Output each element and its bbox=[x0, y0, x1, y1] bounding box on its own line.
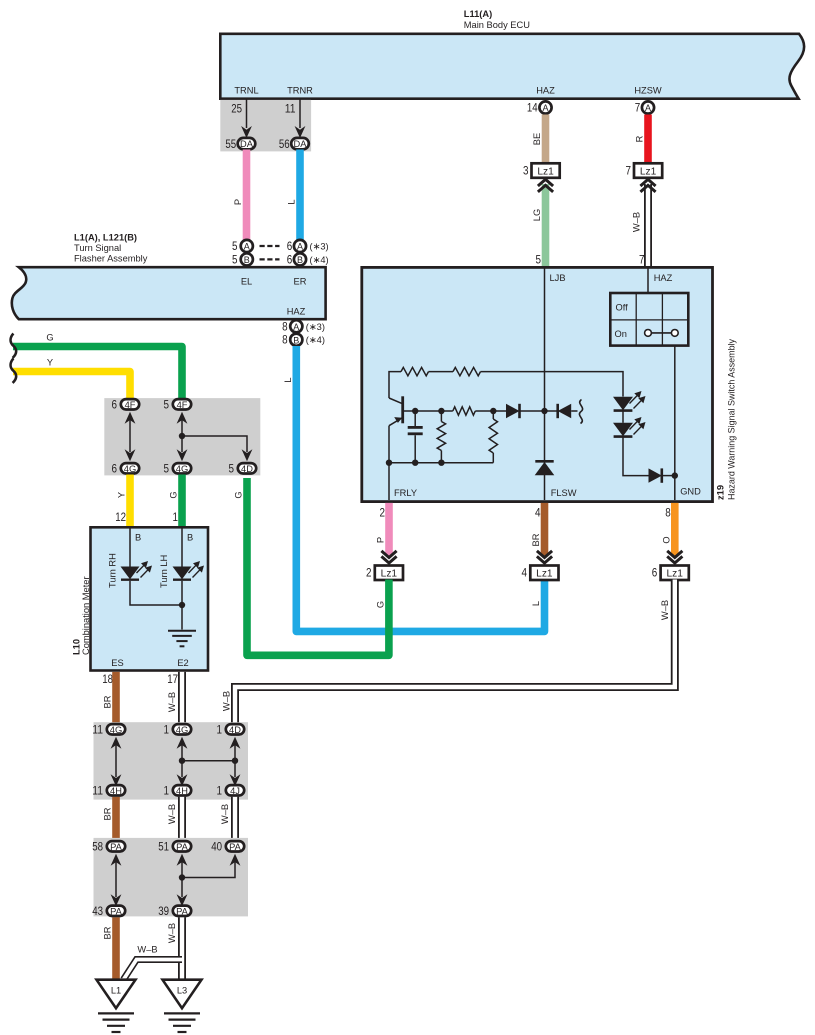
svg-text:56: 56 bbox=[279, 137, 290, 151]
svg-text:HZSW: HZSW bbox=[634, 86, 662, 96]
svg-text:18: 18 bbox=[102, 672, 113, 686]
svg-text:A: A bbox=[645, 103, 651, 113]
svg-text:6: 6 bbox=[287, 252, 293, 266]
svg-text:L1(A), L121(B): L1(A), L121(B) bbox=[74, 233, 137, 243]
svg-text:(∗4): (∗4) bbox=[310, 255, 329, 265]
labels FRLY FLSW GND bbox=[394, 487, 701, 499]
connector 39 PA bbox=[158, 904, 191, 918]
svg-text:HAZ: HAZ bbox=[536, 86, 555, 96]
connector 1 4J bbox=[217, 783, 245, 797]
svg-text:6: 6 bbox=[287, 239, 293, 253]
svg-text:2: 2 bbox=[366, 566, 372, 580]
wire TRNL pin 25 to 55 DA with arrow bbox=[231, 99, 252, 138]
connector 58 PA bbox=[92, 839, 125, 853]
wire LG light green bbox=[542, 184, 550, 266]
wire P pink TRNL bbox=[233, 150, 247, 241]
svg-text:Lz1: Lz1 bbox=[536, 569, 553, 580]
svg-text:4F: 4F bbox=[177, 400, 188, 410]
svg-text:2: 2 bbox=[380, 506, 386, 520]
svg-text:Y: Y bbox=[47, 357, 53, 367]
capacitor C1 bbox=[408, 408, 423, 466]
svg-text:Off: Off bbox=[616, 303, 629, 313]
junction connector 7 Lz1 bbox=[626, 163, 663, 178]
svg-text:7: 7 bbox=[626, 164, 632, 178]
connector 6 4F bbox=[112, 397, 140, 411]
svg-text:5: 5 bbox=[232, 252, 238, 266]
svg-text:B: B bbox=[244, 255, 250, 265]
wire meter internal join bbox=[130, 581, 185, 630]
svg-text:4G: 4G bbox=[176, 464, 188, 474]
svg-text:A: A bbox=[542, 103, 548, 113]
svg-text:55: 55 bbox=[225, 137, 236, 151]
svg-text:On: On bbox=[615, 329, 627, 339]
connector 55 DA bbox=[225, 137, 255, 151]
connector 51 PA bbox=[158, 839, 191, 853]
wire 51 PA to 39 PA with arrows and junction bbox=[177, 854, 188, 907]
svg-text:3: 3 bbox=[523, 164, 529, 178]
node 5 B with dashes to node 6 B (*4) bbox=[232, 252, 329, 266]
svg-text:6: 6 bbox=[112, 461, 118, 475]
svg-text:8: 8 bbox=[665, 506, 671, 520]
wire W-B 4H to 51 PA bbox=[167, 797, 182, 840]
svg-text:11: 11 bbox=[92, 783, 103, 797]
svg-text:4H: 4H bbox=[176, 786, 188, 796]
internal bottom rail bbox=[386, 460, 494, 501]
junction block PA (gray) bbox=[94, 838, 249, 917]
svg-text:4H: 4H bbox=[110, 786, 122, 796]
svg-text:Lz1: Lz1 bbox=[381, 569, 398, 580]
svg-text:L: L bbox=[531, 601, 541, 606]
connector 11 4H bbox=[92, 783, 125, 797]
connector 43 PA bbox=[92, 904, 125, 918]
svg-text:4G: 4G bbox=[110, 725, 122, 735]
svg-text:Lz1: Lz1 bbox=[640, 166, 657, 177]
svg-text:4: 4 bbox=[522, 566, 528, 580]
svg-text:W–B: W–B bbox=[222, 691, 232, 711]
Hazard Warning Signal Switch Assembly box z19 bbox=[362, 267, 713, 501]
svg-text:P: P bbox=[376, 537, 386, 543]
wire 58 PA to 43 PA with arrows bbox=[111, 854, 122, 907]
svg-text:O: O bbox=[661, 536, 671, 543]
svg-text:B: B bbox=[135, 533, 141, 543]
svg-text:Lz1: Lz1 bbox=[537, 166, 554, 177]
svg-text:z19: z19 bbox=[716, 485, 726, 500]
Main Body ECU box L11(A) bbox=[220, 34, 804, 99]
svg-text:Lz1: Lz1 bbox=[666, 569, 683, 580]
connector 5 4D bbox=[229, 461, 257, 475]
svg-text:Turn Signal: Turn Signal bbox=[74, 243, 121, 253]
wire HAZ internal to switch bbox=[647, 267, 649, 293]
wire Y yellow from harness break to 6 4F bbox=[13, 357, 130, 398]
svg-text:BR: BR bbox=[531, 533, 541, 546]
label L10 Combination Meter (rotated) bbox=[72, 576, 92, 655]
connector 1 4D bbox=[217, 722, 245, 736]
connector 6 4G bbox=[112, 461, 140, 475]
svg-text:5: 5 bbox=[164, 461, 170, 475]
wire BE beige bbox=[532, 115, 546, 164]
wire G green from harness break to 5 4F bbox=[13, 332, 182, 398]
svg-text:L: L bbox=[287, 199, 297, 204]
svg-text:51: 51 bbox=[158, 839, 169, 853]
resistor shunt 2 bbox=[489, 408, 497, 463]
svg-text:GND: GND bbox=[680, 487, 701, 497]
svg-text:LJB: LJB bbox=[550, 273, 566, 283]
ground triangle L3 bbox=[163, 980, 202, 1009]
node 5 A with dashes to node 6 A (*3) bbox=[232, 239, 329, 253]
wire 4D to 4J right with arrows and junction bbox=[230, 737, 241, 787]
LED Turn RH bbox=[108, 528, 153, 588]
svg-text:W–B: W–B bbox=[167, 804, 177, 824]
svg-text:BR: BR bbox=[103, 695, 113, 708]
junction block 4F/4G (gray) bbox=[104, 398, 260, 475]
label z19 Hazard Warning Signal Switch Assembly (rotated) bbox=[716, 339, 737, 500]
wire R red bbox=[635, 115, 649, 164]
svg-text:11: 11 bbox=[285, 102, 296, 116]
svg-text:40: 40 bbox=[211, 839, 222, 853]
svg-text:1: 1 bbox=[164, 783, 170, 797]
junction block 4G/4H (gray) bbox=[94, 722, 249, 799]
svg-text:A: A bbox=[293, 322, 299, 332]
svg-text:Y: Y bbox=[117, 492, 127, 498]
wire W-B 39 PA to ground L3 bbox=[167, 917, 182, 980]
svg-text:PA: PA bbox=[110, 842, 123, 852]
svg-text:E2: E2 bbox=[177, 658, 188, 668]
svg-text:G: G bbox=[375, 601, 385, 608]
internal base rail bbox=[404, 410, 506, 412]
svg-text:BE: BE bbox=[532, 133, 542, 145]
wire Y 4G to meter pin 12 bbox=[115, 475, 130, 528]
svg-text:HAZ: HAZ bbox=[287, 307, 306, 317]
LED 1 bbox=[613, 391, 646, 411]
connector 1 4H bbox=[164, 783, 192, 797]
svg-text:B: B bbox=[297, 255, 303, 265]
svg-text:FLSW: FLSW bbox=[551, 488, 577, 498]
wire 40 PA branch to junction bbox=[182, 854, 240, 878]
svg-text:(∗3): (∗3) bbox=[310, 242, 329, 252]
svg-text:W–B: W–B bbox=[660, 600, 670, 620]
connector 5 4F bbox=[164, 397, 192, 411]
label L11(A) Main Body ECU bbox=[464, 9, 530, 30]
junction connector 3 Lz1 bbox=[523, 163, 560, 178]
LED 2 bbox=[613, 411, 646, 437]
switch table Off/On bbox=[610, 293, 688, 346]
svg-text:17: 17 bbox=[167, 672, 178, 686]
svg-text:1: 1 bbox=[217, 722, 223, 736]
svg-text:4D: 4D bbox=[229, 725, 241, 735]
svg-text:DA: DA bbox=[294, 139, 308, 149]
svg-text:11: 11 bbox=[92, 722, 103, 736]
wire 4G to 4H left with arrows bbox=[111, 737, 122, 787]
svg-text:4G: 4G bbox=[176, 725, 188, 735]
svg-text:6: 6 bbox=[652, 566, 658, 580]
wire W-B 4J to 40 PA bbox=[220, 797, 235, 840]
wire W-B from meter E2 pin 17 bbox=[167, 672, 182, 723]
resistor top-right bbox=[453, 367, 481, 375]
connector 11 4G bbox=[92, 722, 125, 736]
connector 40 PA bbox=[211, 839, 244, 853]
svg-text:HAZ: HAZ bbox=[654, 273, 673, 283]
svg-text:BR: BR bbox=[103, 926, 113, 939]
ground triangle L1 bbox=[97, 980, 136, 1009]
wire LED string to GND diode bbox=[623, 437, 649, 476]
wire BR 4H to 58 PA bbox=[103, 797, 117, 840]
svg-text:G: G bbox=[234, 491, 244, 498]
svg-text:(∗4): (∗4) bbox=[306, 335, 325, 345]
diode D3 on FLSW line bbox=[535, 461, 555, 475]
svg-text:5: 5 bbox=[232, 239, 238, 253]
wire W-B from 7 Lz1 to hazard switch bbox=[644, 184, 652, 267]
ground symbol L1 bbox=[98, 1013, 134, 1032]
svg-text:LG: LG bbox=[532, 209, 542, 221]
svg-text:Hazard Warning Signal Switch A: Hazard Warning Signal Switch Assembly bbox=[727, 339, 737, 500]
svg-text:W–B: W–B bbox=[167, 923, 177, 943]
svg-text:R: R bbox=[635, 135, 645, 142]
svg-text:4: 4 bbox=[535, 506, 541, 520]
svg-text:Main Body ECU: Main Body ECU bbox=[464, 20, 530, 30]
svg-text:4G: 4G bbox=[124, 464, 136, 474]
svg-text:Turn LH: Turn LH bbox=[159, 555, 169, 588]
chevron arrows up into 3 Lz1 bbox=[532, 179, 553, 266]
svg-text:L11(A): L11(A) bbox=[464, 9, 492, 19]
svg-text:Combination Meter: Combination Meter bbox=[81, 576, 91, 655]
wire GND internal vertical bbox=[674, 346, 676, 500]
svg-text:L10: L10 bbox=[72, 639, 82, 655]
node 8 A (*3) below flasher HAZ bbox=[282, 319, 325, 333]
svg-text:7: 7 bbox=[639, 253, 645, 267]
svg-text:A: A bbox=[244, 242, 250, 252]
svg-text:FRLY: FRLY bbox=[394, 488, 417, 498]
wire 4G to 4H middle with arrows and junction bbox=[177, 737, 188, 787]
svg-text:7: 7 bbox=[635, 101, 641, 115]
wire junction to 5 4D with arrow bbox=[182, 436, 252, 461]
wire G 4G to meter pin 1 bbox=[169, 475, 183, 528]
svg-text:DA: DA bbox=[240, 139, 254, 149]
pin 2 FRLY pink wire P bbox=[376, 503, 397, 563]
svg-text:W–B: W–B bbox=[167, 692, 177, 712]
svg-text:39: 39 bbox=[158, 904, 169, 918]
svg-text:58: 58 bbox=[92, 839, 103, 853]
ECU pin names TRNL TRNR bbox=[234, 86, 313, 96]
diode D1 to FLSW node bbox=[506, 404, 548, 418]
diode D4 to GND bbox=[649, 468, 679, 482]
svg-text:1: 1 bbox=[217, 783, 223, 797]
svg-text:W–B: W–B bbox=[137, 945, 157, 955]
connector 5 4G bbox=[164, 461, 192, 475]
svg-text:1: 1 bbox=[164, 722, 170, 736]
svg-text:8: 8 bbox=[282, 319, 288, 333]
transistor Q1 bbox=[389, 396, 403, 462]
connector 56 DA bbox=[279, 137, 309, 151]
svg-text:Turn RH: Turn RH bbox=[108, 553, 118, 588]
svg-text:5: 5 bbox=[229, 461, 235, 475]
wire G green from 5 4D to 2 Lz1 bbox=[234, 478, 389, 655]
svg-text:(∗3): (∗3) bbox=[306, 322, 325, 332]
connector 1 4G bbox=[164, 722, 192, 736]
svg-text:PA: PA bbox=[229, 842, 242, 852]
harness break symbol Y bbox=[11, 359, 17, 383]
svg-text:W–B: W–B bbox=[632, 212, 642, 232]
Combination Meter box L10 bbox=[91, 527, 209, 670]
wire junction 4G-4D link bbox=[182, 760, 235, 762]
svg-text:W–B: W–B bbox=[220, 804, 230, 824]
harness break symbol G bbox=[11, 334, 17, 358]
svg-text:L1: L1 bbox=[111, 986, 121, 996]
svg-text:L: L bbox=[283, 377, 293, 382]
junction connector 6 Lz1 bbox=[652, 566, 689, 581]
ground symbol inside meter bbox=[168, 631, 196, 647]
svg-text:ER: ER bbox=[294, 277, 307, 287]
svg-text:A: A bbox=[297, 242, 303, 252]
svg-text:ES: ES bbox=[111, 658, 123, 668]
svg-text:14: 14 bbox=[527, 101, 538, 115]
junction connector 4 Lz1 bbox=[522, 566, 559, 581]
svg-text:L3: L3 bbox=[177, 986, 187, 996]
diode D2 reverse with pigtail bbox=[545, 400, 583, 424]
internal circuit top rail bbox=[389, 372, 623, 398]
svg-text:5: 5 bbox=[164, 397, 170, 411]
svg-text:1: 1 bbox=[173, 510, 179, 524]
chevron arrows up into 7 Lz1 bbox=[632, 179, 656, 266]
svg-text:4D: 4D bbox=[241, 464, 253, 474]
resistor shunt 1 bbox=[437, 408, 445, 466]
Turn Signal Flasher Assembly box bbox=[12, 267, 326, 319]
wire BR 43 PA to ground L1 bbox=[103, 917, 117, 980]
wire L blue TRNR bbox=[287, 150, 301, 241]
ECU pin HZSW 7 A bbox=[634, 86, 662, 115]
svg-text:TRNR: TRNR bbox=[287, 86, 313, 96]
svg-text:TRNL: TRNL bbox=[234, 86, 258, 96]
node 8 B (*4) bbox=[282, 333, 325, 347]
svg-text:G: G bbox=[46, 332, 53, 342]
svg-text:4F: 4F bbox=[125, 400, 136, 410]
wire TRNR pin 11 to 56 DA with arrow bbox=[285, 99, 306, 138]
pin 4 FLSW brown wire BR bbox=[531, 503, 552, 563]
svg-text:PA: PA bbox=[176, 842, 189, 852]
svg-text:G: G bbox=[169, 491, 179, 498]
label L1(A), L121(B) Turn Signal Flasher Assembly bbox=[74, 233, 148, 264]
wire W-B from 6 Lz1 down and left to 1 4D bbox=[222, 580, 675, 725]
ECU pin HAZ 14 A bbox=[527, 86, 555, 115]
wire 4F to 4G left with arrows bbox=[125, 412, 136, 462]
switch contacts On row bbox=[645, 330, 679, 337]
svg-text:8: 8 bbox=[282, 333, 288, 347]
svg-text:6: 6 bbox=[112, 397, 118, 411]
junction block DA (gray) bbox=[220, 100, 311, 151]
LED Turn LH bbox=[159, 528, 204, 588]
svg-text:EL: EL bbox=[241, 277, 252, 287]
svg-text:4J: 4J bbox=[230, 786, 240, 796]
resistor top-left bbox=[401, 367, 429, 375]
svg-text:B: B bbox=[293, 335, 299, 345]
svg-text:25: 25 bbox=[231, 102, 242, 116]
resistor series base bbox=[453, 407, 476, 415]
svg-text:PA: PA bbox=[110, 906, 123, 916]
svg-text:5: 5 bbox=[536, 253, 542, 267]
svg-text:12: 12 bbox=[115, 510, 126, 524]
ground symbol L3 bbox=[164, 1013, 200, 1032]
svg-text:B: B bbox=[187, 533, 193, 543]
svg-text:BR: BR bbox=[103, 807, 113, 820]
wire LJB internal vertical bbox=[544, 267, 546, 500]
wire 4F to 4G right with arrows and junction bbox=[177, 412, 188, 462]
wire W-B branch to ground L1 bbox=[124, 945, 183, 980]
svg-text:43: 43 bbox=[92, 904, 103, 918]
svg-text:P: P bbox=[233, 199, 243, 205]
junction connector 2 Lz1 bbox=[366, 566, 403, 581]
pin 8 GND orange wire O bbox=[661, 503, 682, 563]
wire BR from meter ES pin 18 bbox=[102, 672, 116, 723]
svg-text:Flasher Assembly: Flasher Assembly bbox=[74, 254, 148, 264]
svg-text:PA: PA bbox=[176, 906, 189, 916]
wire L blue from flasher ER to 4 Lz1 bbox=[283, 346, 545, 631]
